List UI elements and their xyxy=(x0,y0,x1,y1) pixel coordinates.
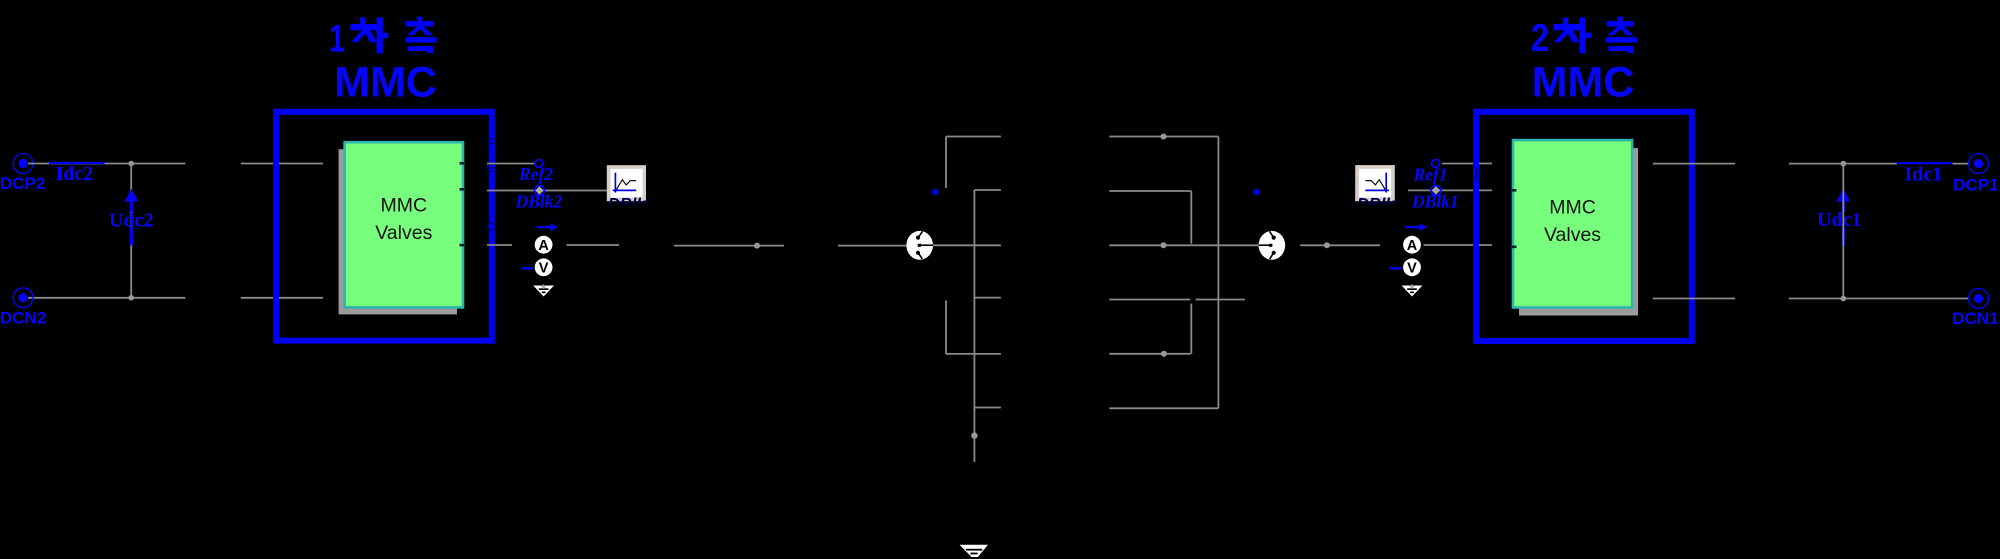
wire vertical outer upper xyxy=(945,137,947,189)
MMC frame left xyxy=(276,112,492,341)
wire MMC right to node (top) xyxy=(1653,163,1735,165)
MMC valves shadow (left) xyxy=(339,149,457,314)
pin marks on green box right edge xyxy=(460,162,465,246)
wire blue to DCP1 xyxy=(1952,163,1968,165)
wire vertical outer xyxy=(1217,137,1219,409)
transformer left wires xyxy=(933,137,1001,463)
wire A to break xyxy=(566,244,619,246)
junction dots right transformer xyxy=(1161,134,1167,140)
multimeter (right) xyxy=(1259,231,1286,260)
big ground (center) xyxy=(960,545,989,557)
terminal DCP2 xyxy=(0,154,45,193)
wire stub 4a xyxy=(1109,299,1190,301)
wire bottom xyxy=(1109,407,1218,409)
svg-text:MMC: MMC xyxy=(1549,197,1596,219)
svg-text:Idc2: Idc2 xyxy=(56,163,94,185)
svg-text:A: A xyxy=(1407,238,1418,254)
wire stub 3 (to multimeter) xyxy=(1109,244,1258,246)
voltmeter V (right) xyxy=(1390,258,1421,276)
svg-text:DCN2: DCN2 xyxy=(0,309,46,328)
측 glyph xyxy=(417,17,422,23)
wire phase stub top xyxy=(946,136,1001,138)
svg-text:V: V xyxy=(539,261,549,277)
clipped pin glyphs on left frame xyxy=(486,136,495,234)
wire vertical inner lower xyxy=(1190,304,1192,354)
node blue dot left xyxy=(932,190,937,195)
svg-text:MMC: MMC xyxy=(1532,59,1635,107)
ammeter A (right) xyxy=(1403,236,1421,254)
svg-text:DBlk2: DBlk2 xyxy=(515,191,563,211)
ammeter A (left) xyxy=(535,236,553,254)
wire multimeter to A (right) xyxy=(1300,244,1380,246)
wire vertical inner upper xyxy=(1190,191,1192,244)
voltmeter arrow Udc1 xyxy=(1817,189,1861,246)
MMC valves block (left) xyxy=(345,142,463,307)
MMC valves shadow (right) xyxy=(1519,148,1638,315)
wire DBlk1 xyxy=(1408,189,1492,191)
wire node to DCN1 xyxy=(1789,298,1969,300)
svg-text:F: F xyxy=(487,136,494,150)
scope icon left xyxy=(607,165,655,213)
node A top-left xyxy=(128,161,134,167)
junction dot xyxy=(1324,242,1330,248)
wire stub 3 (from multimeter) xyxy=(933,244,1001,246)
terminal DCN2 xyxy=(0,288,46,328)
wire DBlk2 xyxy=(487,190,607,192)
junction dot neutral xyxy=(971,432,977,438)
svg-text:A: A xyxy=(538,238,549,254)
node A bottom-left xyxy=(128,295,134,301)
wire gap to node xyxy=(1789,163,1897,165)
voltmeter arrow Udc2 xyxy=(109,189,153,246)
title 1차 측 MMC (left) xyxy=(329,17,437,107)
svg-text:MMC: MMC xyxy=(381,195,428,217)
wire vertical inner xyxy=(973,190,975,462)
wire vertical Udc2 branch xyxy=(130,164,132,298)
svg-text:Idc1: Idc1 xyxy=(1905,164,1943,186)
wire stub 2 xyxy=(1109,190,1191,192)
node DBlk1 circle+diamond xyxy=(1431,186,1441,196)
svg-text:[: [ xyxy=(1475,166,1480,181)
node right top xyxy=(1841,161,1847,167)
small ground (right) xyxy=(1402,284,1423,296)
wire node to MMC box (bottom) xyxy=(241,297,323,299)
wire vertical outer lower xyxy=(945,301,947,354)
current arrow (left) xyxy=(537,223,558,231)
svg-text:V: V xyxy=(1407,261,1417,277)
svg-text:Udc2: Udc2 xyxy=(109,210,153,232)
clipped pin glyph on right frame xyxy=(1475,166,1480,181)
svg-text:C: C xyxy=(486,220,495,234)
wire stub 6 xyxy=(974,407,1001,409)
wire stub 4 xyxy=(974,297,1001,299)
svg-text:Ref2: Ref2 xyxy=(518,164,553,184)
wire DCP2 to node xyxy=(28,163,185,165)
terminal DCP1 xyxy=(1953,154,1998,195)
wire stub 4b xyxy=(1196,299,1245,301)
svg-text:DCP2: DCP2 xyxy=(0,174,45,193)
svg-text:2: 2 xyxy=(1531,17,1549,60)
wire MMC to A meter xyxy=(487,244,512,246)
svg-text:MMC: MMC xyxy=(334,59,437,107)
wire stub 5 xyxy=(946,353,1001,355)
wire A to MMC (right) xyxy=(1424,244,1493,246)
current label wire Idc1 (blue overlay) xyxy=(1897,162,1953,164)
node circle Ref1 xyxy=(1432,160,1440,168)
svg-text:DCN1: DCN1 xyxy=(1952,309,1998,328)
multimeter (left) xyxy=(906,231,933,260)
junction dot xyxy=(754,243,760,249)
wire stub 2 xyxy=(974,189,1001,191)
wire MMC right to node (bottom) xyxy=(1653,298,1735,300)
node right bottom xyxy=(1841,296,1847,302)
title 2차 측 MMC (right) xyxy=(1531,17,1637,107)
wire segment to multimeter xyxy=(838,245,908,247)
wire segment to transformer xyxy=(674,245,784,247)
wire node to MMC box (top) xyxy=(241,163,323,165)
wire Ref1 xyxy=(1442,163,1492,165)
측 glyph xyxy=(1617,17,1622,23)
svg-text:Ref1: Ref1 xyxy=(1413,164,1448,184)
terminal DCN1 xyxy=(1952,289,1998,328)
MMC valves block (right) xyxy=(1513,140,1632,307)
node circle Ref2 xyxy=(535,160,543,168)
svg-text:DCP1: DCP1 xyxy=(1953,175,1998,194)
svg-text:DBlk1: DBlk1 xyxy=(1411,191,1459,211)
svg-text:Valves: Valves xyxy=(1544,224,1601,246)
svg-text:1: 1 xyxy=(329,18,345,61)
wire phase stub top xyxy=(1109,136,1218,138)
wire vertical Udc1 branch xyxy=(1842,164,1844,299)
small ground (left) xyxy=(533,284,554,296)
차 glyph xyxy=(360,18,366,26)
svg-text:Udc1: Udc1 xyxy=(1817,209,1861,231)
node DBlk2 circle+diamond xyxy=(535,186,545,196)
pin marks on green box left edge xyxy=(1512,189,1517,248)
wire Ref2 xyxy=(487,163,535,165)
svg-text:Valves: Valves xyxy=(375,222,432,244)
scope icon right xyxy=(1355,165,1404,213)
transformer right wires xyxy=(1109,137,1258,409)
차 glyph xyxy=(1563,18,1569,26)
wire stub 5 xyxy=(1109,353,1191,355)
current arrow (right) xyxy=(1406,223,1427,231)
node blue dot right xyxy=(1254,190,1259,195)
wire DCN2 to node (bottom) xyxy=(28,297,185,299)
voltmeter V (left) xyxy=(521,258,552,276)
MMC frame right xyxy=(1476,112,1692,341)
current label wire Idc2 (blue overlay) xyxy=(49,162,105,164)
